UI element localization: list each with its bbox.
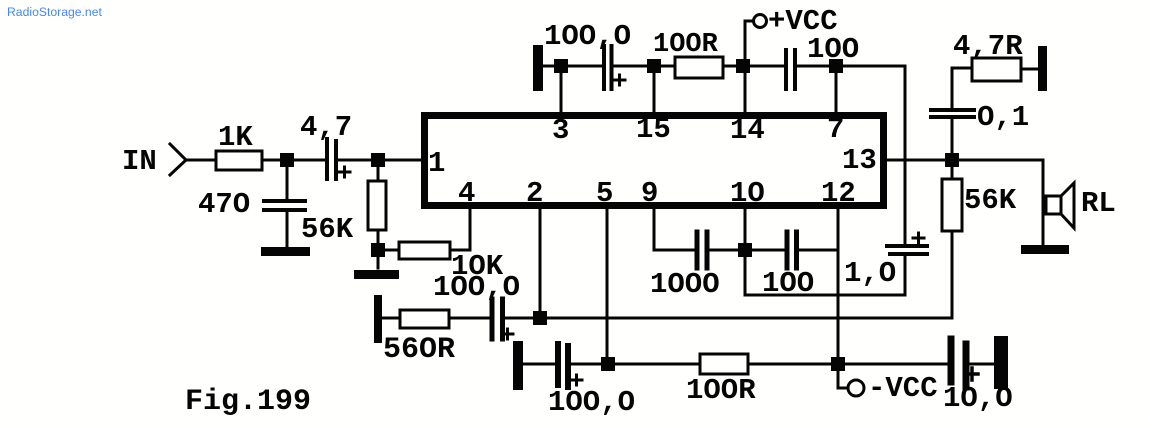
wire bar to R560R [382, 317, 400, 320]
svg-text:1OO,O: 1OO,O [544, 20, 631, 53]
wire pin 13 line [887, 159, 1043, 162]
speaker RL cone [1061, 183, 1074, 228]
svg-text:7: 7 [827, 113, 844, 146]
node F junction pin14 [736, 59, 750, 73]
wire R4,7R to terminal bar [1021, 68, 1038, 71]
svg-text:1OO,O: 1OO,O [433, 271, 520, 304]
svg-text:47O: 47O [198, 188, 250, 221]
resistor 100R top [675, 57, 723, 78]
capacitor 100,0 bottom [558, 344, 568, 387]
svg-text:56K: 56K [301, 213, 354, 246]
wire node L down to R56K right [951, 160, 954, 179]
wire pin 5 stub [606, 209, 609, 364]
svg-text:2: 2 [526, 177, 543, 210]
wire node H to C100 bottom [745, 249, 785, 252]
capacitor 1,0 [887, 246, 927, 254]
svg-text:RL: RL [1081, 187, 1116, 220]
node D junction pin3 [554, 59, 568, 73]
wire pin 7 stub [835, 66, 838, 112]
svg-text:4,7R: 4,7R [953, 30, 1023, 63]
node K junction [831, 357, 845, 371]
terminal bar top left [533, 45, 543, 91]
svg-text:4: 4 [458, 177, 475, 210]
capacitor 100,0 mid [492, 299, 503, 339]
wire C0,1 up to R4,7R [952, 68, 972, 108]
resistor 100R bottom [700, 354, 748, 374]
terminal bar 560R [374, 295, 382, 343]
wire C1,0 bottom stub [904, 256, 907, 295]
speaker RL body [1046, 196, 1061, 214]
node B junction [371, 153, 385, 167]
wire C100,0 mid to node I [504, 317, 540, 320]
terminal bar top right [1038, 46, 1047, 91]
wire pin 10 stub [744, 209, 747, 250]
svg-text:-VCC: -VCC [868, 372, 938, 405]
resistor 56K left [368, 181, 386, 230]
plus mark of 4,7 [339, 167, 350, 177]
wire node B down to R56K [377, 160, 380, 181]
svg-text:1O: 1O [730, 177, 765, 210]
svg-text:1: 1 [428, 147, 445, 180]
svg-text:56K: 56K [964, 184, 1017, 217]
wire input to R1 [186, 159, 216, 162]
wire R560R to C100,0 mid [449, 317, 490, 320]
capacitor 100 top [786, 50, 795, 89]
input connector arrow [170, 144, 186, 175]
svg-text:4,7: 4,7 [300, 111, 352, 144]
wire R56K right to bus [951, 231, 954, 318]
wire C4,7 to pin1 [338, 159, 421, 162]
capacitor 100 bottom [787, 232, 797, 268]
wire pin 12 stub [837, 209, 840, 364]
wire pin 15 stub [653, 66, 656, 112]
resistor 560R [400, 310, 449, 328]
node H junction [738, 243, 752, 257]
resistor 10K [399, 242, 450, 259]
wire R100R bottom to node K [748, 363, 838, 366]
svg-text:1,O: 1,O [844, 257, 896, 290]
node E junction pin15 [647, 59, 661, 73]
wire R100R to C100 [723, 65, 784, 68]
svg-text:13: 13 [842, 144, 877, 177]
-VCC circle [848, 380, 864, 396]
svg-text:1OOR: 1OOR [653, 30, 719, 60]
wire node K to C10,0 [838, 363, 947, 366]
ground below C470 [261, 247, 310, 256]
plus mark of 1,0 [913, 233, 924, 243]
capacitor 470 [264, 201, 305, 210]
resistor 56K right [942, 179, 962, 231]
plus mark of 100,0 top [614, 75, 625, 85]
svg-text:14: 14 [730, 114, 765, 147]
wire R1 to node A [262, 159, 325, 162]
resistor 4,7R [972, 58, 1021, 81]
wire C470 to ground [286, 212, 289, 248]
wire bar to C100,0 bottom [523, 363, 555, 366]
ground below node C [354, 270, 399, 279]
wire node L up to C0,1 [951, 118, 954, 160]
svg-text:9: 9 [641, 177, 658, 210]
+VCC circle [754, 15, 767, 28]
svg-text:1OOO: 1OOO [650, 268, 720, 301]
wire node J to R100R bottom [608, 363, 700, 366]
node L junction [945, 153, 959, 167]
wire C10,0 to terminal bar [969, 363, 994, 366]
node G junction pin7 [829, 59, 843, 73]
svg-text:Fig.199: Fig.199 [185, 385, 311, 419]
capacitor 1000 [697, 232, 707, 268]
svg-text:1OOR: 1OOR [686, 374, 756, 407]
IC U1 body [425, 116, 884, 206]
svg-text:3: 3 [552, 114, 569, 147]
wire node C to R10K [385, 249, 399, 252]
capacitor 4,7 [327, 139, 336, 179]
wire node A down to C470 [286, 160, 289, 199]
plus mark of 10,0 [966, 368, 978, 380]
capacitor 0,1 [931, 110, 974, 117]
wire R10K to pin 4 [450, 209, 470, 250]
wire C100 bottom to pin12 line [798, 249, 838, 252]
ground below speaker [1021, 245, 1069, 254]
svg-text:IN: IN [122, 145, 157, 178]
svg-text:O,1: O,1 [977, 101, 1029, 134]
wire C100,0 to R100R [613, 65, 675, 68]
svg-text:1K: 1K [218, 121, 253, 154]
wire node K to -VCC terminal [838, 364, 848, 388]
wire node H down and right [745, 250, 905, 295]
wire C100,0 bottom to node J [569, 363, 608, 366]
wire pin13 line to speaker [1042, 160, 1045, 246]
terminal bar bottom right [994, 336, 1008, 389]
wire bar to C100,0 [543, 65, 602, 68]
capacitor 100,0 top [604, 46, 612, 89]
wire R56K to ground [377, 230, 380, 268]
capacitor 10,0 [951, 339, 966, 387]
svg-text:RadioStorage.net: RadioStorage.net [7, 5, 102, 19]
wire pin 2 stub [539, 209, 542, 318]
node I junction [533, 311, 547, 325]
wire corner down to C1,0 [904, 66, 907, 245]
svg-text:12: 12 [821, 177, 856, 210]
node J junction [601, 357, 615, 371]
wire bus 318 [540, 317, 952, 320]
node C junction [371, 243, 385, 257]
resistor 1K [216, 151, 262, 170]
wire pin 14 stub [744, 66, 747, 112]
svg-text:1OO,O: 1OO,O [548, 386, 635, 419]
svg-text:5: 5 [596, 177, 613, 210]
wire C100 to corner [797, 65, 905, 68]
wire C1000 to node H [709, 249, 745, 252]
wire pin 3 stub [560, 66, 563, 112]
svg-text:56OR: 56OR [383, 333, 455, 367]
plus mark of 100,0 bottom [571, 375, 582, 385]
wire pin 9 stub [654, 209, 694, 250]
terminal bar 100,0 bottom [513, 341, 523, 390]
wire to +VCC terminal [745, 21, 753, 66]
plus mark of 100,0 mid [502, 329, 513, 339]
svg-text:15: 15 [636, 113, 671, 146]
node A junction [280, 153, 294, 167]
